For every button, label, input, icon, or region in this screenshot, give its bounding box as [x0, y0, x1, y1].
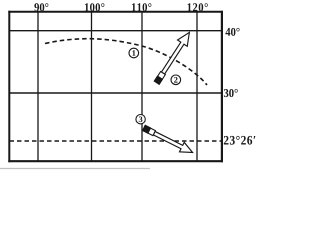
circled label 3	[136, 115, 145, 124]
map frame left	[8, 11, 10, 163]
circled label 1	[129, 48, 139, 58]
dashed line tropic of cancer 23deg26min	[10, 140, 223, 142]
longitude label 90	[34, 3, 48, 11]
faint scan line below figure	[0, 168, 150, 170]
grid line 100E	[91, 12, 93, 161]
arrow 3 (pointing southeast)	[141, 123, 195, 157]
grid line 30N	[9, 92, 223, 94]
latitude label 30N	[224, 89, 238, 97]
longitude label 110	[132, 3, 151, 11]
map frame right	[221, 11, 223, 163]
arrow 2 (pointing northeast)	[152, 29, 194, 86]
latitude label 23deg26min	[224, 136, 256, 145]
longitude label 100	[85, 3, 104, 11]
grid line 120E	[196, 12, 198, 161]
grid line 40N	[9, 30, 223, 32]
grid line 90E	[37, 12, 39, 161]
latitude label 40N	[225, 28, 239, 36]
circled label 2	[171, 75, 181, 85]
map frame top	[8, 11, 223, 13]
dashed curve path 1	[45, 39, 207, 85]
longitude label 120	[188, 3, 208, 11]
map frame bottom	[8, 160, 223, 162]
grid line 110E	[141, 12, 143, 161]
